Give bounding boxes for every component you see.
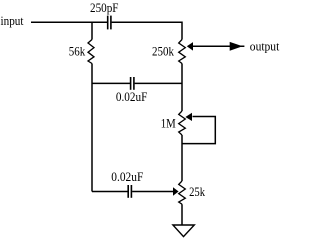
capacitor C1 250pF left plate xyxy=(107,16,109,30)
capacitor C2 0.02uF right plate xyxy=(133,77,135,90)
wire R1 bottom down left rail to bottom corner xyxy=(91,64,93,192)
ground symbol xyxy=(173,225,194,237)
svg-text:0.02uF: 0.02uF xyxy=(111,169,143,184)
wire VR1 wiper loop xyxy=(182,117,215,144)
resistor R2 250k zigzag xyxy=(179,40,186,64)
capacitor C3 0.02uF right plate xyxy=(130,185,132,198)
wire C2 right plate to right rail xyxy=(135,82,182,84)
arrowhead R2 wiper xyxy=(187,42,193,51)
svg-text:25k: 25k xyxy=(189,184,205,199)
wire C3 right plate to VR2 wiper xyxy=(132,191,173,193)
capacitor C3 0.02uF left plate xyxy=(127,185,129,198)
svg-text:0.02uF: 0.02uF xyxy=(116,89,147,104)
wire VR1 bottom to VR2 top xyxy=(181,135,183,181)
potentiometer VR2 25k zigzag xyxy=(179,181,186,204)
wire junction input node down to R1 top xyxy=(91,22,93,39)
arrowhead VR2 wiper xyxy=(173,187,179,196)
wire VR2 bottom to ground xyxy=(181,204,183,225)
capacitor C2 0.02uF left plate xyxy=(130,77,132,90)
wire C1 to top-right corner xyxy=(112,22,182,39)
wire bottom rail to C3 left plate xyxy=(92,191,128,193)
potentiometer VR1 1M zigzag xyxy=(179,111,186,135)
resistor R1 56k zigzag xyxy=(88,40,94,64)
wire input to C1 left plate xyxy=(31,21,107,23)
svg-text:1M: 1M xyxy=(161,115,176,130)
svg-text:250pF: 250pF xyxy=(90,0,119,15)
arrowhead output xyxy=(230,42,243,51)
svg-text:output: output xyxy=(250,38,280,53)
wire node A to C2 left plate xyxy=(92,82,130,84)
svg-text:250k: 250k xyxy=(152,44,174,59)
capacitor C1 250pF right plate xyxy=(110,16,112,30)
wire R2 bottom to VR1 top xyxy=(181,64,183,112)
arrowhead VR1 wiper xyxy=(185,113,192,121)
svg-text:56k: 56k xyxy=(69,43,86,58)
wire R2 wiper to output xyxy=(193,45,245,47)
svg-text:input: input xyxy=(1,13,24,28)
